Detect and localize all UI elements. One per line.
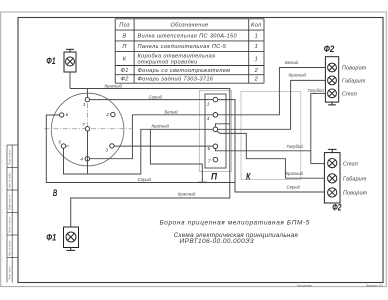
lamp F2 bottom block bbox=[324, 153, 340, 203]
pin B2 bbox=[111, 112, 115, 116]
svg-text:Серый: Серый bbox=[149, 95, 163, 100]
junction box K outline bbox=[241, 92, 301, 180]
svg-text:Белый: Белый bbox=[165, 110, 179, 115]
svg-text:Фонарь задний 7303-3716: Фонарь задний 7303-3716 bbox=[138, 76, 214, 83]
svg-text:Белый: Белый bbox=[285, 60, 299, 65]
pin P5 bbox=[213, 127, 218, 132]
svg-text:Панель соединительная ПС-5: Панель соединительная ПС-5 bbox=[138, 44, 227, 50]
pin B5 tick bbox=[66, 145, 69, 147]
svg-text:Стоп: Стоп bbox=[343, 161, 358, 167]
wire B1 stub to red bbox=[86, 89, 88, 98]
wire ground branch from red bbox=[150, 129, 202, 182]
wire white P4 to lamp bbox=[218, 68, 326, 115]
svg-text:Ф2: Ф2 bbox=[332, 203, 342, 213]
connector B circle bbox=[51, 93, 124, 166]
svg-text:1: 1 bbox=[207, 101, 210, 107]
svg-text:Ф2: Ф2 bbox=[120, 77, 129, 83]
panel P rectangle bbox=[205, 94, 226, 168]
svg-text:Габарит: Габарит bbox=[342, 79, 366, 85]
svg-text:Габарит: Габарит bbox=[343, 177, 367, 183]
ground F2 top bbox=[328, 102, 336, 105]
left stamp column bbox=[7, 145, 18, 283]
svg-text:Кол: Кол bbox=[251, 23, 262, 29]
parts table bbox=[115, 19, 264, 83]
svg-text:ИРВТ106-00.00.000Э3: ИРВТ106-00.00.000Э3 bbox=[180, 238, 254, 245]
pin B7 bbox=[85, 127, 89, 131]
wire B7 down bbox=[87, 131, 89, 174]
svg-text:Красный: Красный bbox=[105, 84, 123, 89]
svg-text:Копировал: Копировал bbox=[297, 283, 312, 287]
pin B4 bbox=[85, 157, 89, 161]
svg-text:1: 1 bbox=[255, 57, 258, 63]
svg-text:1: 1 bbox=[83, 102, 86, 108]
wire F1top down bbox=[69, 72, 71, 89]
svg-text:В: В bbox=[53, 188, 57, 198]
pin B1 bbox=[85, 97, 89, 101]
wire red P5 to gabarit top bbox=[218, 80, 326, 129]
wire blue vertical bbox=[310, 93, 312, 163]
lamp F2 top block bbox=[325, 57, 338, 102]
svg-text:Борона прицепная мелиоративная: Борона прицепная мелиоративная БПМ-5 bbox=[159, 219, 310, 226]
svg-text:6: 6 bbox=[208, 146, 211, 152]
wire red top net bbox=[70, 89, 230, 228]
svg-text:Поз: Поз bbox=[119, 23, 130, 29]
pin P6 bbox=[213, 144, 218, 149]
wire colour labels left bbox=[105, 84, 196, 197]
wire blue to stop top bbox=[311, 92, 326, 94]
wire P5 branch up to red bbox=[215, 124, 229, 127]
wire grey B6 bbox=[46, 115, 235, 183]
svg-text:Вилка штепсельная ПС 300А-150: Вилка штепсельная ПС 300А-150 bbox=[138, 34, 238, 40]
svg-text:Ф1: Ф1 bbox=[46, 233, 56, 243]
svg-text:6: 6 bbox=[66, 112, 69, 118]
svg-text:7: 7 bbox=[82, 122, 85, 128]
svg-text:Красный: Красный bbox=[289, 73, 307, 78]
svg-text:Красный: Красный bbox=[286, 171, 304, 176]
svg-text:Подп. дата: Подп. дата bbox=[9, 266, 12, 280]
svg-text:Серый: Серый bbox=[138, 177, 152, 182]
svg-text:Формат А3: Формат А3 bbox=[366, 283, 383, 287]
svg-text:Голубой: Голубой bbox=[287, 144, 304, 149]
svg-text:Ф2: Ф2 bbox=[324, 44, 335, 54]
ground F2 bottom bbox=[328, 149, 337, 152]
wire B3 to P6 bbox=[114, 145, 213, 147]
pin P1 bbox=[213, 97, 218, 102]
svg-text:открытой проводки: открытой проводки bbox=[138, 59, 198, 66]
svg-text:Ф1: Ф1 bbox=[46, 56, 55, 66]
svg-text:П: П bbox=[122, 44, 127, 50]
wire colour labels right bbox=[285, 60, 324, 190]
svg-text:Взам. инв. №: Взам. инв. № bbox=[9, 194, 12, 210]
wire blue P6 to lamps bbox=[215, 149, 310, 151]
pin B6 bbox=[60, 113, 64, 117]
svg-text:Серый: Серый bbox=[287, 185, 301, 190]
lamp F1 top bbox=[64, 49, 76, 72]
svg-text:4: 4 bbox=[80, 156, 83, 162]
svg-text:2: 2 bbox=[254, 77, 259, 83]
panel P outer plate bbox=[199, 90, 231, 171]
svg-text:Обозначение: Обозначение bbox=[170, 23, 208, 29]
lamp labels F2 top bbox=[342, 66, 367, 98]
svg-text:Фонарь со светоотражателем: Фонарь со светоотражателем bbox=[138, 68, 231, 74]
pin P4 bbox=[213, 113, 218, 118]
svg-text:Голубой: Голубой bbox=[308, 88, 325, 93]
ground bar mid bbox=[198, 181, 206, 183]
svg-text:5: 5 bbox=[58, 140, 61, 146]
lamp F1 bottom bbox=[64, 227, 79, 250]
svg-text:Поворот: Поворот bbox=[343, 191, 368, 197]
svg-text:Инв. № дубл.: Инв. № дубл. bbox=[9, 172, 12, 188]
centerline vertical bbox=[86, 94, 88, 167]
pin B3 bbox=[110, 144, 114, 148]
pin numbers of P bbox=[207, 101, 211, 164]
wire red P5 diag to gabarit bottom bbox=[217, 131, 325, 178]
svg-text:4: 4 bbox=[207, 116, 210, 122]
svg-text:Подп. и дата: Подп. и дата bbox=[9, 217, 12, 233]
svg-text:Красный: Красный bbox=[152, 124, 170, 129]
lamp labels F2 bottom bbox=[343, 161, 368, 196]
svg-text:2: 2 bbox=[254, 68, 259, 74]
svg-text:Подп. и дата: Подп. и дата bbox=[9, 149, 12, 165]
wire grey B1 to P1 bbox=[90, 99, 214, 101]
wire white B4 to P4 bbox=[90, 115, 214, 159]
svg-text:7: 7 bbox=[208, 159, 211, 165]
pin P7 bbox=[213, 157, 218, 162]
wire grey P1 to lamp bbox=[218, 100, 325, 192]
svg-text:Красный: Красный bbox=[178, 192, 196, 197]
svg-text:Ф1: Ф1 bbox=[120, 68, 128, 74]
wire red B5 B7 to P5 bbox=[64, 129, 214, 174]
pin numbers of B bbox=[58, 102, 109, 162]
centerline horizontal bbox=[44, 128, 132, 130]
svg-text:В: В bbox=[123, 34, 127, 40]
svg-text:П: П bbox=[211, 171, 217, 181]
svg-text:К: К bbox=[123, 57, 127, 63]
svg-text:2: 2 bbox=[105, 112, 109, 118]
svg-text:Стоп: Стоп bbox=[342, 92, 357, 98]
svg-text:Поворот: Поворот bbox=[342, 66, 367, 72]
pin B5 bbox=[61, 144, 65, 148]
svg-text:1: 1 bbox=[255, 34, 258, 40]
svg-text:3: 3 bbox=[105, 147, 108, 153]
svg-text:Инв. № подл.: Инв. № подл. bbox=[9, 240, 12, 256]
wire blue to stop bottom bbox=[311, 163, 325, 165]
svg-text:1: 1 bbox=[255, 44, 258, 50]
